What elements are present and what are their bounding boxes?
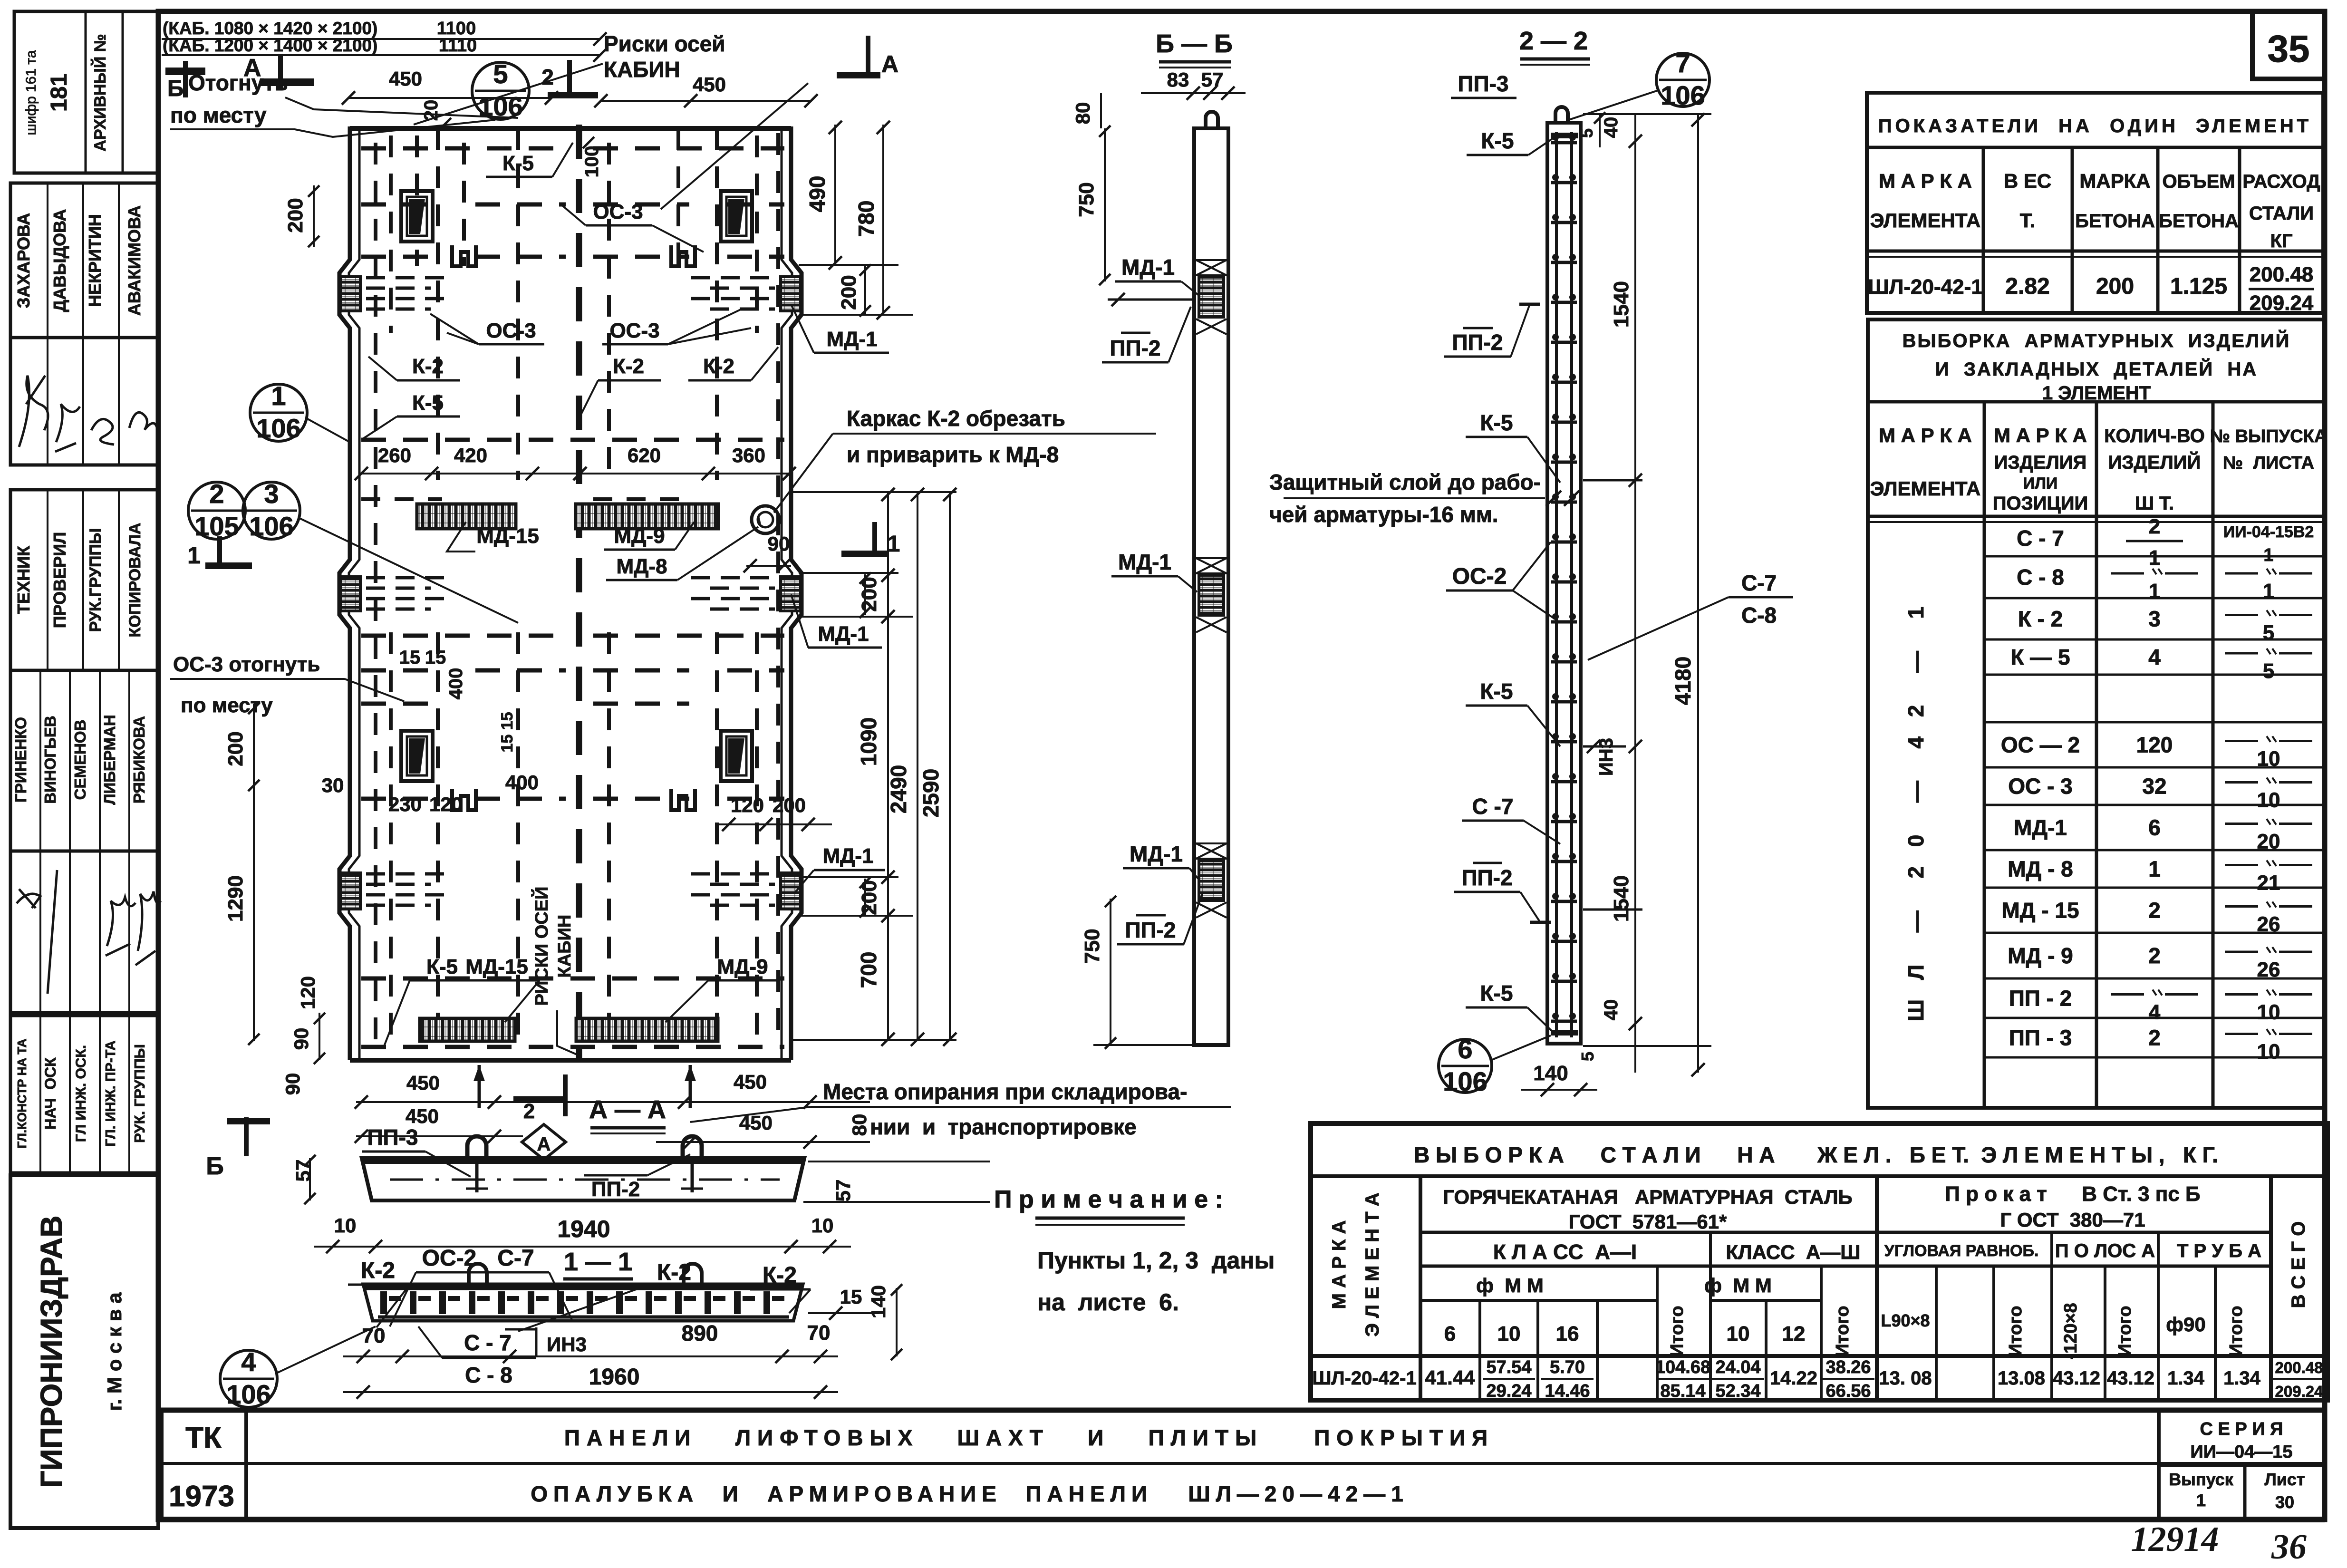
svg-text:СЕМЕНОВ: СЕМЕНОВ [71,720,89,800]
svg-text:ПОЗИЦИИ: ПОЗИЦИИ [1993,493,2088,514]
svg-text:21: 21 [2257,871,2280,895]
svg-text:200.48: 200.48 [2275,1359,2323,1376]
svg-text:С Е Р И Я: С Е Р И Я [2200,1419,2283,1439]
svg-text:38.26: 38.26 [1825,1357,1871,1377]
long dashed vertical reinforcement lines [374,143,377,1046]
svg-text:40: 40 [1601,117,1622,138]
loop stems inside A-A [475,1163,479,1192]
svg-text:ПП-2: ПП-2 [591,1178,640,1201]
stamp box: surnames (Гриненко/...) [10,670,158,851]
svg-text:М А Р К А: М А Р К А [1879,170,1972,192]
svg-text:ГЛ. ИНЖ. ПР-ТА: ГЛ. ИНЖ. ПР-ТА [103,1040,118,1146]
svg-text:90: 90 [290,1028,312,1050]
section mark B bottom-left [227,1117,270,1156]
svg-text:1: 1 [888,532,900,557]
svg-text:А: А [537,1134,551,1155]
size sub-columns [1478,1300,1481,1400]
svg-text:К-2: К-2 [613,355,644,378]
svg-text:г. М о с к в а: г. М о с к в а [103,1292,126,1411]
svg-text:Итого: Итого [1833,1306,1853,1356]
extension lines for 2490/2590 dims [791,491,956,493]
svg-text:7: 7 [1675,48,1690,78]
svg-text:М А Р К А: М А Р К А [1329,1220,1350,1309]
svg-text:1: 1 [2196,1491,2206,1510]
svg-text:15 15: 15 15 [498,712,516,752]
svg-text:13. 08: 13. 08 [1879,1368,1932,1389]
diamond mark A [522,1124,566,1160]
svg-text:К - 2: К - 2 [2018,607,2063,631]
anchor loop symbols [452,245,476,266]
svg-text:2.82: 2.82 [2005,274,2049,299]
stamp box: signatures 2 [10,851,158,1013]
svg-text:№ ВЫПУСКА: № ВЫПУСКА [2210,426,2328,446]
svg-text:ГИПРОНИИЗДРАВ: ГИПРОНИИЗДРАВ [34,1215,68,1488]
svg-text:1940: 1940 [557,1216,610,1242]
svg-text:П р о к а т В Ст. 3 пс Б: П р о к а т В Ст. 3 пс Б [1945,1182,2200,1206]
stamp box: ГИПРОНИИЗДРАВ [10,1175,158,1528]
svg-text:Итого: Итого [1667,1306,1687,1356]
svg-text:(КАБ. 1080 × 1420 × 2100): (КАБ. 1080 × 1420 × 2100) [163,19,377,38]
A-A section: panel cross-section (trapezoid) [362,1158,804,1200]
lifting loop left (A-A) [467,1136,486,1158]
svg-text:52.34: 52.34 [1715,1381,1760,1401]
opening OS-3 top-left [401,191,433,242]
svg-text:Г ОСТ 380—71: Г ОСТ 380—71 [2000,1209,2145,1231]
table: vyborka armaturnyh izdelij [1868,319,2325,1108]
svg-text:ПП-3: ПП-3 [367,1125,418,1150]
svg-text:490: 490 [805,176,830,213]
svg-text:6: 6 [2148,815,2161,840]
section mark A top-left [261,54,314,90]
svg-text:200: 200 [224,731,247,766]
svg-text:С-8: С-8 [1741,603,1777,628]
svg-text:90: 90 [281,1073,304,1095]
svg-text:1290: 1290 [224,875,247,922]
svg-text:106: 106 [1443,1066,1487,1096]
svg-text:С - 8: С - 8 [2017,565,2064,590]
svg-text:КГ: КГ [2270,231,2292,252]
svg-text:1960: 1960 [589,1365,640,1390]
stamp box: roles (Техник/Проверил/...) [10,490,158,670]
opening OS-3 low-right [721,731,752,781]
svg-text:1: 1 [2263,545,2273,565]
svg-text:80: 80 [1072,102,1094,125]
svg-text:ЭЛЕМЕНТА: ЭЛЕМЕНТА [1870,209,1980,232]
svg-text:(КАБ. 1200 × 1400 × 2100): (КАБ. 1200 × 1400 × 2100) [163,36,377,55]
svg-text:МАРКА: МАРКА [2079,170,2150,192]
svg-text:Защитный слой до рабо-: Защитный слой до рабо- [1269,470,1541,494]
svg-text:4180: 4180 [1671,657,1695,705]
svg-text:400: 400 [505,771,539,794]
svg-text:1090: 1090 [856,717,881,766]
svg-text:2: 2 [2149,515,2160,538]
svg-text:10: 10 [2257,789,2280,812]
svg-text:209.24: 209.24 [2275,1383,2324,1400]
svg-text:30: 30 [322,774,344,796]
svg-text:70: 70 [807,1321,831,1345]
stamp box: archive numbers [14,11,158,173]
mark circle 3/106 [243,482,300,539]
reinforcement bars inside 1-1 [380,1291,784,1314]
svg-text:на листе 6.: на листе 6. [1037,1289,1179,1316]
svg-text:-120×8: -120×8 [2061,1303,2081,1359]
svg-text:5: 5 [493,59,508,89]
mark circle 7/106 [1656,53,1710,106]
svg-text:29.24: 29.24 [1486,1381,1531,1401]
mark circle 1/106 [250,384,307,441]
svg-text:260: 260 [378,444,411,466]
svg-text:ф90: ф90 [2166,1313,2205,1336]
B-B panel strip [1194,128,1228,1045]
svg-text:1 — 1: 1 — 1 [564,1248,632,1276]
svg-text:L90×8: L90×8 [1881,1311,1930,1330]
svg-text:104.68: 104.68 [1655,1357,1710,1377]
svg-text:6: 6 [1444,1322,1456,1345]
dim chain right: 200/1090/200/700 [887,492,889,1041]
svg-text:ф М М: ф М М [1704,1274,1772,1297]
svg-text:АРХИВНЫЙ №: АРХИВНЫЙ № [91,34,109,151]
table: pokazateli na odin element [1867,93,2323,313]
svg-text:РУК. ГРУППЫ: РУК. ГРУППЫ [131,1044,148,1143]
svg-text:ОПАЛУБКА И АРМИРОВАНИЕ ПАНЕ: ОПАЛУБКА И АРМИРОВАНИЕ ПАНЕЛИ ШЛ—20—42—1 [531,1481,1409,1506]
B-B embedded details MD-1 (hatch + bowties) [1199,277,1224,317]
svg-text:3: 3 [2148,607,2161,631]
title block frame [158,1410,2325,1520]
svg-text:ТК: ТК [185,1422,222,1454]
svg-text:1110: 1110 [439,36,477,56]
svg-text:14.22: 14.22 [1770,1368,1817,1389]
svg-text:ГЛ ИНЖ. ОСК.: ГЛ ИНЖ. ОСК. [73,1045,89,1142]
svg-text:КАБИН: КАБИН [555,915,575,978]
svg-text:1973: 1973 [169,1480,234,1513]
svg-text:1: 1 [2263,580,2274,603]
svg-text:35: 35 [2268,28,2310,70]
svg-text:Э Л Е М Е Н Т А: Э Л Е М Е Н Т А [1362,1192,1383,1336]
svg-text:2590: 2590 [918,769,943,817]
svg-text:С - 7: С - 7 [2017,526,2064,551]
svg-text:15: 15 [840,1286,862,1308]
svg-text:ИН3: ИН3 [1596,738,1617,776]
svg-text:5: 5 [1578,1052,1597,1061]
svg-text:ПП-2: ПП-2 [1110,336,1160,360]
svg-text:400: 400 [445,668,466,700]
svg-text:ИЛИ: ИЛИ [2023,474,2058,493]
opening OS-3 low-left [401,731,433,781]
mark circle 4/106 [220,1350,277,1407]
svg-text:4: 4 [2149,1001,2161,1024]
svg-text:200: 200 [2096,274,2134,299]
svg-text:106: 106 [256,413,300,443]
svg-text:К Л А СС А—I: К Л А СС А—I [1493,1240,1637,1264]
svg-text:ИИ-04-15В2: ИИ-04-15В2 [2223,523,2314,541]
svg-text:10: 10 [1497,1322,1521,1345]
svg-text:К-5: К-5 [426,955,458,978]
stamp box: chief roles [10,1016,158,1173]
B-B tick line top left [1108,299,1194,301]
svg-text:10: 10 [811,1214,834,1237]
svg-text:20: 20 [2257,830,2280,853]
hatched bar lower-right [576,1018,718,1041]
svg-text:10: 10 [334,1214,357,1237]
svg-text:АВАКИМОВА: АВАКИМОВА [125,205,144,316]
svg-text:5: 5 [2263,621,2274,645]
svg-text:80: 80 [848,1114,870,1136]
svg-text:по месту: по месту [181,694,273,717]
long dashed vertical lines lower half [389,632,393,1046]
svg-text:ИИ—04—15: ИИ—04—15 [2190,1442,2292,1462]
svg-text:1: 1 [271,381,286,411]
dim 2590 [949,492,951,1041]
svg-text:В Ы Б О Р К А С Т А Л И: В Ы Б О Р К А С Т А Л И Н А Ж Е Л . Б Е … [1414,1142,2218,1167]
svg-text:М А Р К А: М А Р К А [1879,424,1972,446]
svg-text:120: 120 [2136,733,2173,757]
svg-text:57.54: 57.54 [1486,1357,1531,1377]
svg-text:Лист: Лист [2264,1470,2305,1489]
svg-text:41.44: 41.44 [1425,1366,1475,1389]
svg-text:Б — Б: Б — Б [1156,29,1233,58]
main panel outline (plan view) [350,126,791,131]
page number 35 box [2252,11,2325,79]
svg-text:ф М М: ф М М [1476,1274,1544,1297]
svg-text:57: 57 [832,1180,854,1202]
lifting position arrows [478,1065,481,1108]
svg-text:КЛАСС А—Ш: КЛАСС А—Ш [1726,1241,1861,1263]
svg-text:СТАЛИ: СТАЛИ [2249,203,2314,224]
washer detail MD-8 [752,506,779,533]
svg-text:140: 140 [1533,1062,1568,1085]
hatched bar lower-left [420,1018,515,1041]
dim 57 left of A-A [309,1158,311,1200]
section mark 2 top [548,60,598,95]
svg-text:10: 10 [2257,1040,2280,1064]
svg-text:85.14: 85.14 [1660,1381,1705,1401]
svg-text:450: 450 [406,1105,439,1127]
svg-text:МД-1: МД-1 [1130,842,1183,866]
svg-text:МД-9: МД-9 [717,955,768,978]
svg-text:140: 140 [867,1285,889,1318]
svg-text:К-2: К-2 [361,1258,395,1283]
svg-text:40: 40 [1601,999,1622,1021]
svg-text:Выпуск: Выпуск [2169,1470,2234,1489]
svg-text:ЗАХАРОВА: ЗАХАРОВА [14,213,33,308]
svg-text:Итого: Итого [2115,1306,2135,1356]
svg-text:2: 2 [541,65,554,89]
svg-text:1 ЭЛЕМЕНТ: 1 ЭЛЕМЕНТ [2042,383,2151,404]
svg-text:НЕКРИТИН: НЕКРИТИН [85,214,105,307]
svg-text:120: 120 [731,794,764,816]
svg-text:ИЗДЕЛИЯ: ИЗДЕЛИЯ [1994,452,2087,473]
svg-text:К-2: К-2 [412,355,444,378]
svg-text:ОС-3: ОС-3 [486,319,536,342]
signature squiggles [19,376,157,452]
svg-text:4: 4 [241,1347,256,1377]
opening OS-3 top-right [721,191,752,242]
svg-text:1: 1 [187,542,201,569]
svg-text:ИН3: ИН3 [547,1333,587,1355]
svg-text:Т.: Т. [2020,209,2036,232]
svg-text:1.34: 1.34 [2167,1368,2205,1389]
svg-text:5: 5 [1577,128,1596,138]
svg-text:нии и транспортировке: нии и транспортировке [870,1114,1137,1139]
svg-text:13.08: 13.08 [1998,1368,2045,1389]
svg-text:420: 420 [454,444,487,466]
svg-text:МД-15: МД-15 [476,524,539,548]
central axis dashed line [576,125,582,1060]
mark circle 5/106 [472,62,529,119]
svg-text:5.70: 5.70 [1550,1357,1585,1377]
handwritten numbers [2131,1520,2307,1567]
svg-text:2: 2 [2148,898,2161,923]
svg-text:890: 890 [682,1321,718,1345]
svg-text:1.34: 1.34 [2223,1368,2261,1389]
svg-text:12914: 12914 [2131,1520,2219,1559]
svg-text:750: 750 [1081,929,1104,963]
svg-text:и приварить к МД-8: и приварить к МД-8 [847,442,1059,467]
svg-text:С-7: С-7 [1741,571,1777,595]
svg-text:30: 30 [2275,1492,2294,1512]
dim 2490 [917,492,918,1041]
2-2 panel strip [1547,123,1581,1044]
section mark B top [165,61,205,97]
svg-text:ТЕХНИК: ТЕХНИК [14,545,33,614]
2-2 dim 4180 [1697,114,1699,1073]
svg-text:181: 181 [47,74,72,112]
svg-text:ПП - 2: ПП - 2 [2009,986,2072,1011]
svg-text:НАЧ ОСК: НАЧ ОСК [42,1057,59,1130]
svg-text:26: 26 [2257,913,2280,936]
svg-text:16: 16 [1556,1322,1579,1345]
svg-text:К-5: К-5 [1480,981,1513,1006]
svg-text:1: 1 [2148,857,2161,881]
svg-text:36: 36 [2271,1528,2307,1567]
svg-text:Б: Б [167,76,184,101]
mark circle 2/105 [188,482,245,539]
svg-text:ШЛ-20-42-1: ШЛ-20-42-1 [1312,1368,1416,1389]
svg-text:1.125: 1.125 [2170,274,2227,299]
svg-text:К-2: К-2 [703,355,734,378]
svg-text:БЕТОНА: БЕТОНА [2075,211,2155,232]
svg-text:С - 7: С - 7 [464,1330,512,1355]
svg-text:450: 450 [693,73,726,96]
svg-text:1: 1 [2149,546,2160,570]
2-2 tick mid [1583,745,1626,748]
svg-text:620: 620 [628,444,661,466]
svg-text:БЕТОНА: БЕТОНА [2159,211,2239,232]
svg-text:1: 1 [2149,580,2160,603]
svg-text:ЭЛЕМЕНТА: ЭЛЕМЕНТА [1870,477,1980,500]
svg-text:ДАВЫДОВА: ДАВЫДОВА [50,209,69,312]
svg-text:МД-15: МД-15 [465,955,528,978]
stamp box: signatures 1 [10,338,158,465]
section mark A top-right [837,36,880,78]
svg-text:200: 200 [284,198,307,232]
svg-text:К-5: К-5 [1480,679,1513,704]
svg-text:209.24: 209.24 [2250,291,2314,315]
svg-text:200: 200 [837,275,860,310]
svg-text:№ ЛИСТА: № ЛИСТА [2223,453,2314,473]
svg-text:120: 120 [297,976,319,1009]
embedded detail MD-1 pockets with hatch (left edge) [340,277,360,311]
svg-text:70: 70 [362,1324,386,1347]
svg-text:МД-1: МД-1 [822,844,873,868]
svg-text:ШЛ-20-42-1: ШЛ-20-42-1 [1868,275,1982,299]
svg-text:Итого: Итого [2226,1306,2246,1356]
svg-text:2490: 2490 [886,765,911,813]
svg-text:750: 750 [1075,182,1098,217]
svg-text:ОС-3 отогнуть: ОС-3 отогнуть [173,653,320,676]
svg-text:ВИНОГЬЕВ: ВИНОГЬЕВ [41,716,59,803]
svg-text:2 — 2: 2 — 2 [1519,27,1588,55]
svg-text:РАСХОД: РАСХОД [2242,171,2320,192]
2-2 lifting loop top [1555,107,1568,123]
svg-text:ОС-2: ОС-2 [422,1246,477,1271]
svg-text:К-5: К-5 [502,152,534,175]
svg-text:2: 2 [2148,1026,2161,1050]
svg-text:ПП-3: ПП-3 [1458,71,1508,96]
svg-text:КОПИРОВАЛА: КОПИРОВАЛА [126,523,144,638]
svg-text:15: 15 [399,647,421,668]
svg-text:106: 106 [226,1379,270,1409]
svg-text:М А Р К А: М А Р К А [1994,424,2087,446]
PP-2 axis line inside A-A [390,1179,780,1181]
svg-text:14.46: 14.46 [1545,1381,1590,1401]
svg-text:20: 20 [421,100,442,121]
2-2 top heavy bar K-5 [1551,133,1578,138]
svg-text:ГОСТ 5781—61*: ГОСТ 5781—61* [1569,1210,1727,1233]
svg-text:В ЕС: В ЕС [2004,170,2051,192]
svg-text:КАБИН: КАБИН [604,57,680,82]
svg-text:105: 105 [194,511,239,541]
svg-text:К-5: К-5 [1481,128,1514,153]
svg-text:П р и м е ч а н и е :: П р и м е ч а н и е : [994,1186,1223,1213]
svg-text:Пункты 1, 2, 3 даны: Пункты 1, 2, 3 даны [1037,1247,1275,1274]
svg-text:780: 780 [854,201,879,237]
svg-text:ИЗДЕЛИЙ: ИЗДЕЛИЙ [2108,451,2201,473]
svg-text:450: 450 [734,1071,767,1093]
svg-text:В С Е Г О: В С Е Г О [2288,1221,2309,1308]
svg-text:ОС-2: ОС-2 [1452,564,1507,589]
svg-text:57: 57 [1201,68,1224,91]
svg-text:Итого: Итого [2006,1306,2026,1356]
svg-text:МД-1: МД-1 [1121,255,1175,280]
svg-text:ПАНЕЛИ ЛИФТОВЫХ ШАХТ И: ПАНЕЛИ ЛИФТОВЫХ ШАХТ И ПЛИТЫ ПОКРЫТИЯ [564,1425,1494,1450]
svg-text:РУК.ГРУППЫ: РУК.ГРУППЫ [87,528,105,632]
2-2 reinforcement cage [1555,132,1558,1037]
svg-text:К — 5: К — 5 [2010,645,2070,669]
svg-text:10: 10 [2257,1001,2280,1024]
mark circle 6/106 [1439,1039,1492,1093]
svg-text:ПП-2: ПП-2 [1452,330,1503,355]
dim 200 upper-right pocket label [799,572,898,574]
svg-text:К-5: К-5 [412,391,444,415]
table: vyborka stali (bottom right) [1311,1123,2328,1400]
svg-text:С-7: С-7 [497,1246,534,1271]
svg-text:МД - 15: МД - 15 [2001,898,2079,923]
svg-text:200.48: 200.48 [2250,263,2314,286]
svg-text:5: 5 [2263,659,2274,683]
svg-text:Б: Б [206,1152,223,1180]
svg-text:ГЛ.КОНСТР НА ТА: ГЛ.КОНСТР НА ТА [15,1038,29,1148]
section mark 2 bottom [513,1074,567,1116]
svg-text:МД - 8: МД - 8 [2008,857,2073,881]
svg-text:чей арматуры-16 мм.: чей арматуры-16 мм. [1269,502,1498,527]
svg-text:ОС-3: ОС-3 [609,319,659,342]
svg-text:Каркас К-2 обрезать: Каркас К-2 обрезать [847,406,1065,431]
B-B lifting loop top [1206,112,1218,128]
svg-text:ГРИНЕНКО: ГРИНЕНКО [12,717,29,803]
svg-text:1540: 1540 [1610,875,1633,922]
svg-text:А — А: А — А [589,1095,666,1124]
